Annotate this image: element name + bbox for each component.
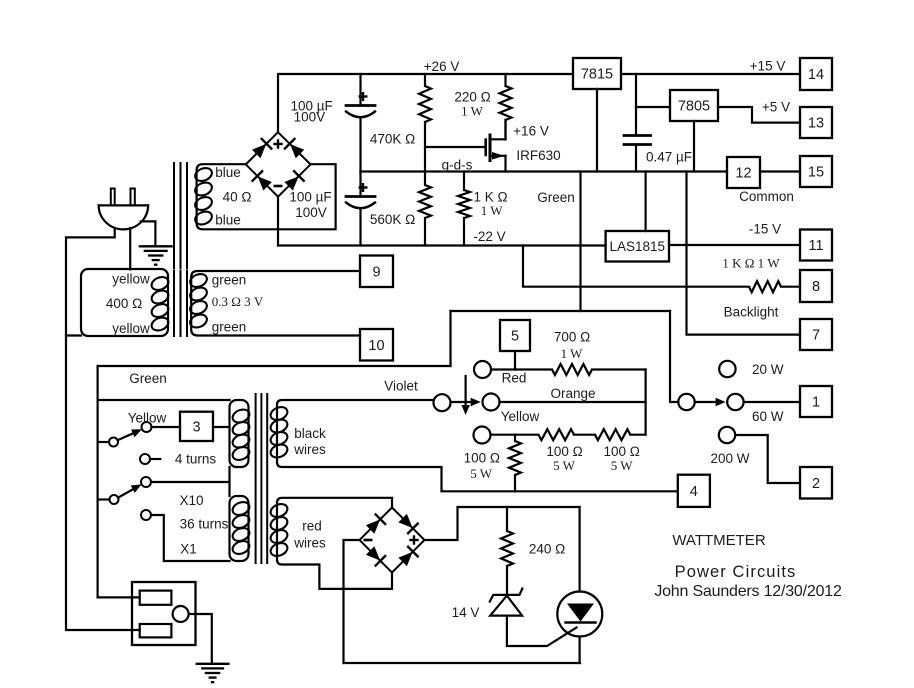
node selector pole <box>678 394 694 410</box>
svg-text:10: 10 <box>368 338 384 354</box>
wire 60W to box1 <box>744 401 800 403</box>
ground outlet <box>196 664 230 682</box>
label 20 W <box>752 362 784 377</box>
label Orange <box>550 386 595 401</box>
resistor R6 100 5W <box>538 429 574 440</box>
svg-text:Backlight: Backlight <box>724 304 779 319</box>
svg-text:400 Ω: 400 Ω <box>106 296 142 311</box>
node X1 terminal <box>141 510 151 520</box>
label IRF630 <box>516 148 560 163</box>
terminal box 1 <box>800 386 832 417</box>
wire switch2 stub <box>98 498 110 500</box>
label -15 V <box>749 221 781 236</box>
terminal box 9 <box>360 256 393 288</box>
diode BR1 top-right <box>284 138 306 160</box>
resistor R8 100 5W vertical <box>509 435 521 492</box>
svg-text:15: 15 <box>808 165 824 181</box>
label -22 V <box>473 229 505 244</box>
wire 200W to box2 <box>735 435 800 483</box>
svg-text:4 turns: 4 turns <box>175 451 217 466</box>
wire row3 mid <box>574 434 595 436</box>
resistor R1 470K <box>419 74 431 185</box>
wire backlight feed <box>523 246 749 287</box>
label 0.47 uF <box>646 149 692 164</box>
svg-text:X1: X1 <box>180 541 197 556</box>
selector arrow down <box>461 376 469 415</box>
svg-text:220 Ω: 220 Ω <box>454 89 490 104</box>
svg-text:0.47 µF: 0.47 µF <box>646 149 692 164</box>
label 470K <box>370 131 415 146</box>
svg-text:1 W: 1 W <box>481 203 504 218</box>
wire plug neutral left rail <box>66 229 140 631</box>
label BR1 plus <box>273 139 282 148</box>
label 1K 1W <box>473 189 507 218</box>
wire selector bus y311 <box>451 310 671 312</box>
terminal box 12 <box>727 157 760 188</box>
svg-text:7805: 7805 <box>678 99 710 115</box>
node 60W position <box>727 394 743 410</box>
regulator U3 LAS1815 <box>606 231 669 262</box>
wire to box3 <box>152 426 181 428</box>
resistor 1K 1W backlight <box>749 281 781 292</box>
node 4 turns tap <box>140 454 160 464</box>
svg-text:36 turns: 36 turns <box>180 516 229 531</box>
label 240 ohm <box>529 541 565 556</box>
svg-text:60 W: 60 W <box>752 409 784 424</box>
wire bridge1 negative drop <box>277 197 279 246</box>
node switch1 common <box>109 438 118 447</box>
label BR2 minus <box>364 539 373 542</box>
bridge rectifier BR2 <box>360 508 425 573</box>
label yellow top <box>112 271 150 286</box>
node 100W row terminal <box>474 427 491 444</box>
svg-text:8: 8 <box>812 279 820 295</box>
label John Saunders <box>654 583 842 600</box>
svg-text:IRF630: IRF630 <box>516 148 560 163</box>
label +16 V <box>513 123 549 138</box>
svg-text:black: black <box>294 426 326 441</box>
wire X10 tap <box>151 481 230 483</box>
svg-text:Yellow: Yellow <box>128 410 167 425</box>
svg-text:-22 V: -22 V <box>473 229 505 244</box>
label 40 ohm <box>223 189 252 204</box>
label 4 turns <box>175 451 217 466</box>
svg-text:100 Ω: 100 Ω <box>604 444 640 459</box>
label +15 V <box>750 58 786 73</box>
svg-text:wires: wires <box>293 535 326 550</box>
label BR1 minus <box>274 185 283 188</box>
svg-text:700 Ω: 700 Ω <box>554 329 590 344</box>
label 36 turns <box>180 516 229 531</box>
wire common rail <box>361 170 728 172</box>
bridge rectifier BR1 <box>246 132 311 197</box>
label 1 K ohm 1 W <box>722 256 780 271</box>
wire common to box7 <box>687 172 801 335</box>
terminal box 11 <box>800 230 832 261</box>
resistor R2 560K <box>419 185 431 246</box>
wire red row <box>491 368 552 370</box>
svg-text:5 W: 5 W <box>470 466 493 481</box>
svg-text:0.3 Ω 3 V: 0.3 Ω 3 V <box>212 294 264 309</box>
wire switch1 stub <box>98 441 109 443</box>
svg-text:470K Ω: 470K Ω <box>370 131 415 146</box>
transistor Q1 IRF630 <box>486 120 506 172</box>
svg-text:240 Ω: 240 Ω <box>529 541 565 556</box>
label 400 ohm <box>106 296 142 311</box>
label black wires <box>293 426 326 457</box>
label Power Circuits <box>675 563 797 581</box>
label 220 ohm <box>454 89 490 118</box>
transformer T1 secondary blue 40ohm <box>193 164 335 229</box>
svg-text:11: 11 <box>808 238 823 254</box>
terminal box 14 <box>800 58 832 90</box>
label 60 W <box>752 409 784 424</box>
svg-text:green: green <box>212 319 247 334</box>
svg-text:1 W: 1 W <box>561 346 584 361</box>
wire box3 to primary <box>213 426 230 428</box>
wire +26V rail <box>278 74 573 132</box>
wire primary top <box>98 399 230 401</box>
terminal box 13 <box>800 107 832 138</box>
node switch1 throw <box>142 422 152 432</box>
svg-text:Common: Common <box>739 189 794 204</box>
wire -22V rail <box>278 244 606 246</box>
svg-text:WATTMETER: WATTMETER <box>672 532 765 549</box>
svg-text:green: green <box>212 272 247 287</box>
transformer T2 secondary red wires <box>269 498 392 589</box>
label 0.3 ohm 3 V <box>212 294 264 309</box>
wire -15V to box11 <box>669 244 800 246</box>
wire bus drop to green wire <box>449 311 451 366</box>
svg-text:Green: Green <box>129 371 167 386</box>
svg-text:14: 14 <box>808 67 824 83</box>
svg-text:Green: Green <box>537 190 575 205</box>
wire selector feed drop <box>670 311 678 402</box>
wire plug cord <box>129 228 131 269</box>
svg-text:7815: 7815 <box>581 67 613 83</box>
svg-text:2: 2 <box>812 476 820 492</box>
wire row3 left <box>491 434 539 436</box>
svg-text:yellow: yellow <box>112 321 150 336</box>
label WATTMETER <box>672 532 765 549</box>
terminal box 10 <box>360 329 393 361</box>
label 100 ohm b <box>604 444 640 473</box>
svg-text:4: 4 <box>690 484 698 500</box>
wire backlight to box8 <box>781 286 800 288</box>
resistor R5 700 1W <box>552 364 592 375</box>
wire orange row <box>500 401 646 403</box>
switch SW1 arm <box>118 429 142 440</box>
svg-text:13: 13 <box>808 116 824 132</box>
svg-text:Red: Red <box>502 370 527 385</box>
label +26 V <box>424 59 460 74</box>
svg-text:Violet: Violet <box>384 378 418 393</box>
svg-text:+16 V: +16 V <box>513 123 549 138</box>
label BR2 plus <box>409 535 418 544</box>
wire BR2 negative <box>344 540 360 663</box>
resistor R4 1K 1W <box>458 172 470 246</box>
label yellow bottom <box>112 321 150 336</box>
diode BR2 top-left <box>364 514 386 536</box>
label C2 100uF <box>289 189 331 220</box>
label Yellow switch <box>128 410 167 425</box>
terminal box 5 <box>500 320 530 351</box>
svg-text:blue: blue <box>215 165 241 180</box>
transformer T1 primary (yellow 400) <box>81 269 170 336</box>
wire regulator input drop <box>635 74 637 136</box>
svg-text:+15 V: +15 V <box>750 58 786 73</box>
label Red <box>502 370 527 385</box>
svg-text:-15 V: -15 V <box>749 221 781 236</box>
wire common box12 to box15 <box>760 170 800 172</box>
label +5 V <box>762 99 790 114</box>
node switch2 common <box>110 495 119 504</box>
svg-text:20 W: 20 W <box>752 362 784 377</box>
svg-text:John Saunders 12/30/2012: John Saunders 12/30/2012 <box>654 583 842 600</box>
capacitor C2 100uF lower <box>346 172 375 246</box>
label 200 W <box>710 451 749 466</box>
terminal box 7 <box>800 319 832 350</box>
regulator U1 7815 <box>573 58 621 89</box>
node Violet terminal <box>434 394 451 411</box>
node Yellow terminal <box>483 394 500 411</box>
node Red terminal <box>474 361 491 378</box>
transformer T1 core <box>174 163 187 336</box>
label blue top <box>215 165 241 180</box>
label 560K <box>370 212 415 227</box>
svg-text:yellow: yellow <box>112 271 150 286</box>
resistor R7 100 5W <box>595 429 630 440</box>
wire LAS1815 input stub <box>644 172 646 232</box>
svg-text:100 Ω: 100 Ω <box>464 451 500 466</box>
wire box5 stem <box>514 351 516 370</box>
svg-text:wires: wires <box>293 442 326 457</box>
wire green drop <box>98 366 140 597</box>
svg-text:red: red <box>302 518 322 533</box>
wire network right column <box>644 370 646 435</box>
diode Z1 zener 14V <box>490 589 523 616</box>
outlet socket <box>132 582 196 645</box>
transformer T2 secondary black wires <box>269 400 678 491</box>
svg-text:1: 1 <box>812 395 820 411</box>
ground chassis near plug <box>139 246 173 264</box>
wire red row right <box>592 368 646 370</box>
wire common drop to selector bus <box>579 172 581 312</box>
svg-text:200 W: 200 W <box>710 451 749 466</box>
thyristor Q2 <box>557 592 602 637</box>
svg-text:Orange: Orange <box>550 386 595 401</box>
svg-text:560K Ω: 560K Ω <box>370 212 415 227</box>
wire plug ground <box>141 221 156 244</box>
capacitor C1 100uF upper <box>346 74 375 172</box>
capacitor C3 0.47uF <box>624 136 651 172</box>
transformer T1 secondary green 0.3ohm <box>188 271 360 336</box>
svg-text:X10: X10 <box>179 493 203 508</box>
svg-text:5 W: 5 W <box>611 458 634 473</box>
svg-text:blue: blue <box>215 212 241 227</box>
terminal box 15 <box>800 156 832 187</box>
wire X1 <box>151 515 230 561</box>
label C1 100uF <box>290 99 332 125</box>
resistor R3 220 1W <box>500 74 512 139</box>
label blue bottom <box>215 212 241 227</box>
diode BR2 bottom-right <box>397 546 419 568</box>
svg-text:Yellow: Yellow <box>501 409 540 424</box>
wire coil connector <box>228 467 230 496</box>
transformer T2 primary lower coil <box>230 496 252 561</box>
transformer T2 core <box>256 394 268 563</box>
wire 7805 input <box>636 106 670 108</box>
label X1 <box>180 541 197 556</box>
svg-text:+26 V: +26 V <box>424 59 460 74</box>
label green bottom <box>212 319 247 334</box>
diode BR2 top-right <box>397 512 419 534</box>
wire row3 right <box>630 434 645 436</box>
label g-d-s <box>442 157 473 172</box>
diode BR1 bottom-right <box>283 170 305 192</box>
wire +5V <box>718 107 800 123</box>
diode BR1 top-left <box>251 138 273 160</box>
diode BR1 bottom-left <box>252 170 274 192</box>
svg-text:100V: 100V <box>294 109 326 124</box>
label Common <box>739 189 794 204</box>
label Green <box>129 371 167 386</box>
wire 7805 ground lead <box>693 121 695 172</box>
svg-text:100 µF: 100 µF <box>289 189 331 204</box>
svg-text:3: 3 <box>192 420 200 436</box>
label X10 <box>179 493 203 508</box>
svg-text:5: 5 <box>511 329 519 345</box>
diode BR2 bottom-left <box>364 545 386 567</box>
wire BR2 positive <box>425 507 580 540</box>
label 14 V <box>452 605 480 620</box>
svg-text:14 V: 14 V <box>452 605 480 620</box>
svg-text:LAS1815: LAS1815 <box>610 239 666 254</box>
regulator U2 7805 <box>670 90 718 121</box>
wire outlet ground <box>189 614 212 662</box>
svg-text:g-d-s: g-d-s <box>442 157 473 172</box>
node switch2 throw X10 <box>141 477 151 487</box>
node 200W position <box>719 427 735 443</box>
transformer T2 primary upper coil <box>230 400 252 467</box>
resistor R9 240 <box>501 507 513 596</box>
svg-text:12: 12 <box>735 166 751 182</box>
terminal box 4 <box>678 475 710 507</box>
wire gate <box>425 146 486 148</box>
label 700 ohm <box>554 329 590 361</box>
svg-text:5 W: 5 W <box>553 458 576 473</box>
label Green (wire color) <box>537 190 575 205</box>
svg-text:100 Ω: 100 Ω <box>546 444 582 459</box>
svg-text:40 Ω: 40 Ω <box>223 189 252 204</box>
svg-text:100V: 100V <box>295 205 327 220</box>
label Backlight <box>724 304 779 319</box>
svg-text:1 W: 1 W <box>461 104 484 119</box>
wire +15V output <box>621 73 800 75</box>
svg-text:1 K Ω: 1 K Ω <box>473 189 507 204</box>
wire 7815 ground lead <box>596 89 598 172</box>
selector arrow right <box>451 398 481 406</box>
svg-text:9: 9 <box>372 264 380 280</box>
node 20W position <box>719 361 735 377</box>
ac plug <box>99 189 148 230</box>
label Yellow <box>501 409 540 424</box>
wire bottom rail <box>344 662 581 664</box>
terminal box 8 <box>800 270 832 302</box>
switch SW2 arm <box>118 484 142 497</box>
svg-text:Power Circuits: Power Circuits <box>675 563 797 581</box>
terminal box 3 <box>180 412 213 441</box>
svg-text:+5 V: +5 V <box>762 99 790 114</box>
wire SCR cathode <box>578 637 580 664</box>
label red wires <box>293 518 326 550</box>
svg-text:1 K Ω 1 W: 1 K Ω 1 W <box>722 256 780 271</box>
label Violet <box>384 378 418 393</box>
wire green common <box>98 365 451 367</box>
label green top <box>212 272 247 287</box>
wire left rail to primary bottom <box>66 334 81 336</box>
selector arrow to 60W <box>695 398 726 406</box>
wire SCR anode <box>578 507 580 592</box>
svg-text:7: 7 <box>812 328 820 344</box>
label 100 ohm c <box>464 451 500 481</box>
terminal box 2 <box>800 467 832 499</box>
wire zener to gate <box>507 616 577 646</box>
label 100 ohm a <box>546 444 582 473</box>
